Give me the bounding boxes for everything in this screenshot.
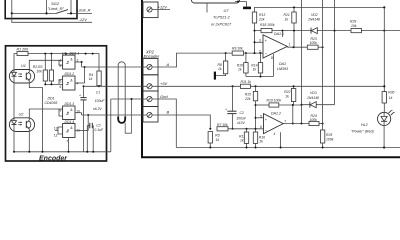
node junction [65, 53, 67, 55]
pin +12V [147, 4, 170, 12]
node junction [293, 30, 295, 32]
wire Gnd cable [111, 98, 147, 100]
svg-text:10k: 10k [36, 70, 42, 74]
wire U2 emitter [28, 129, 30, 152]
node junction [383, 85, 385, 87]
resistor R9 [232, 46, 244, 55]
node junction [225, 52, 227, 54]
svg-text:R9 10k: R9 10k [232, 46, 243, 50]
svg-text:5: 5 [260, 114, 262, 118]
wire +5V cable [84, 85, 148, 87]
wire U2 collector to DD1.3 [29, 109, 62, 120]
node junction [255, 85, 257, 87]
svg-text:DA1: DA1 [279, 62, 286, 66]
svg-text:10k: 10k [351, 24, 357, 28]
svg-text:x6.3V: x6.3V [92, 107, 102, 111]
resistor R13 [252, 12, 265, 23]
resistor R21 [284, 7, 297, 47]
node junction [87, 114, 89, 116]
svg-text:100uF: 100uF [236, 116, 247, 120]
resistor R10 [237, 53, 248, 76]
node junction [254, 41, 256, 43]
svg-text:R30: R30 [388, 91, 394, 95]
svg-text:U1: U1 [21, 64, 26, 68]
svg-text:100uF: 100uF [95, 99, 106, 103]
node junction [255, 147, 257, 149]
wire B cable [82, 114, 147, 116]
resistor R3 [49, 54, 53, 85]
connector cell +12V [143, 2, 158, 18]
svg-text:R19 100k: R19 100k [267, 99, 282, 103]
node junction [383, 6, 385, 8]
wire U7 pin4 [235, 2, 247, 7]
switch SG2 [48, 1, 69, 13]
main sheet border [142, 0, 400, 157]
node junction [92, 53, 94, 55]
pin B [147, 110, 170, 118]
svg-text:R18 100k: R18 100k [260, 23, 275, 27]
LED HL2 [351, 110, 395, 134]
capacitor C2 encoder [87, 123, 104, 152]
node -12V [79, 17, 88, 22]
svg-text:1N4148: 1N4148 [308, 18, 320, 22]
pin Gnd [147, 94, 168, 102]
wire stub x282 [282, 31, 284, 37]
svg-text:9: 9 [60, 109, 62, 113]
limit box border [5, 0, 77, 19]
svg-text:C1: C1 [96, 90, 100, 94]
node junction [50, 83, 52, 85]
node junction [383, 30, 385, 32]
svg-text:TLP521-2: TLP521-2 [213, 16, 231, 20]
node junction [260, 52, 262, 54]
svg-text:2: 2 [259, 50, 261, 54]
wire DD1.2 input [45, 80, 62, 85]
resistor R1 [17, 48, 29, 56]
wire vertical x334 [334, 0, 336, 105]
wire LED to rail [383, 126, 385, 148]
resistor R29 [350, 20, 362, 33]
svg-text:22k: 22k [258, 18, 265, 22]
connector cell +5V [143, 75, 158, 91]
svg-text:8: 8 [271, 56, 273, 60]
svg-text:1k: 1k [389, 96, 393, 100]
wire top rail [255, 7, 385, 12]
resistor R24 [309, 114, 323, 126]
node junction [246, 147, 248, 149]
svg-text:Limit_R: Limit_R [77, 8, 91, 13]
node junction [260, 76, 262, 78]
node junction [45, 12, 47, 14]
wire mid rail [255, 30, 400, 32]
svg-text:6: 6 [60, 85, 62, 89]
node junction [254, 30, 256, 32]
svg-text:Encoder: Encoder [39, 155, 68, 162]
svg-text:7: 7 [284, 119, 286, 123]
node junction [92, 151, 94, 153]
svg-text:VD2: VD2 [311, 13, 318, 17]
svg-text:R29: R29 [350, 20, 356, 24]
svg-text:3: 3 [259, 39, 261, 43]
diode VD2 [308, 13, 320, 34]
wire feedback x292.8 [292, 105, 294, 124]
node junction [44, 53, 46, 55]
node junction [322, 123, 324, 125]
wire encoder ground rail [15, 151, 111, 153]
resistor R23 [307, 37, 322, 49]
svg-text:or 2xPC817: or 2xPC817 [211, 23, 232, 27]
node junction [232, 85, 234, 87]
node junction [255, 117, 257, 119]
resistor R30 [382, 91, 394, 113]
wire +5V internal rail [14, 54, 99, 71]
svg-text:+: + [79, 93, 81, 97]
node Limit_R [77, 8, 91, 13]
node junction [293, 6, 295, 8]
svg-text:1k: 1k [216, 138, 220, 142]
node junction [246, 128, 248, 130]
svg-text:+12V: +12V [158, 4, 168, 9]
svg-text:C2: C2 [240, 111, 244, 115]
connector cell A [143, 59, 158, 75]
wire [12, 13, 92, 22]
node junction [255, 104, 257, 106]
resistor R12 [239, 129, 249, 148]
node junction [85, 53, 87, 55]
resistor R15 [244, 86, 258, 132]
svg-text:1k: 1k [259, 140, 263, 144]
node junction [237, 1, 239, 3]
wire U1 collector to DD1.1 [29, 60, 62, 72]
wire R10 R14 tie [246, 76, 274, 78]
node junction [301, 123, 303, 125]
node junction [44, 83, 46, 85]
svg-text:Gnd: Gnd [160, 94, 168, 99]
wire B step [152, 115, 210, 129]
wire DD pin7 ground [66, 138, 68, 152]
resistor R7 [217, 123, 264, 131]
pin +5V [147, 81, 168, 89]
svg-text:R2,R3: R2,R3 [33, 65, 43, 69]
node junction [383, 146, 385, 148]
optocoupler U2 [9, 83, 34, 152]
svg-text:"Limit_R": "Limit_R" [48, 6, 65, 11]
wire DA1.1 pin8 [271, 54, 273, 77]
optocoupler U1 [9, 64, 34, 83]
node junction [13, 151, 15, 153]
svg-text:4: 4 [77, 82, 79, 86]
node junction [84, 66, 86, 68]
node junction [293, 85, 295, 87]
ground bar R8 [214, 72, 216, 80]
node junction [131, 98, 133, 100]
node junction [322, 147, 324, 149]
svg-text:DA1.2: DA1.2 [271, 111, 281, 115]
node junction [209, 147, 211, 149]
node junction [292, 123, 294, 125]
op-amp DA1.1 [255, 32, 291, 71]
resistor R8 [216, 53, 228, 76]
svg-text:13: 13 [54, 126, 58, 130]
wire vertical x322 [322, 0, 324, 130]
svg-text:0.1uF: 0.1uF [94, 128, 104, 132]
node junction [255, 128, 257, 130]
svg-text:B: B [167, 110, 170, 115]
node junction [11, 12, 13, 14]
wire U1 emitter [29, 80, 42, 151]
encoder box border [6, 46, 107, 163]
pin A [147, 62, 170, 70]
svg-text:+5V: +5V [160, 81, 168, 86]
node junction [70, 12, 72, 14]
svg-text:1k: 1k [285, 94, 289, 98]
node junction [83, 85, 85, 87]
node junction [280, 147, 282, 149]
wire vertical x383 upper [383, 7, 385, 91]
resistor R2 [33, 54, 48, 85]
svg-text:-12V: -12V [79, 17, 88, 22]
svg-text:"Power" (Red): "Power" (Red) [351, 130, 374, 134]
svg-text:1N4148: 1N4148 [307, 96, 319, 100]
resistor R18 [260, 23, 275, 33]
capacitor C1 [79, 86, 105, 152]
optocoupler U7 [192, 0, 240, 27]
wire [46, 0, 48, 13]
connector cell B [143, 107, 158, 123]
node junction [98, 85, 100, 87]
resistor R5 [208, 132, 220, 148]
node junction [292, 104, 294, 106]
wire R13 down [254, 23, 256, 53]
wire DD1.1 out riser to A [81, 62, 83, 67]
svg-text:HL2: HL2 [361, 123, 368, 127]
wire +12V rail [152, 85, 384, 87]
svg-text:1: 1 [289, 42, 291, 46]
svg-text:C2: C2 [96, 124, 100, 128]
resistor R11 [240, 80, 251, 89]
wire R9 to DA1.1 [244, 52, 263, 54]
wire ground rail [176, 147, 400, 149]
cable loop [118, 62, 125, 123]
svg-text:1k: 1k [218, 67, 222, 71]
resistor R22 [284, 86, 296, 105]
ground bar [243, 7, 251, 10]
svg-text:A: A [166, 62, 170, 67]
node junction [334, 30, 336, 32]
logic gate DD1.3 [60, 102, 82, 119]
svg-text:R1 200: R1 200 [17, 48, 29, 52]
connector XP2 [144, 50, 160, 60]
wire DA1.2 pin4 [280, 132, 282, 147]
capacitor C2 [225, 86, 247, 129]
resistor R19 [256, 99, 302, 108]
wire [70, 0, 72, 13]
wire DD1.4 out riser [87, 115, 89, 131]
svg-text:LM393: LM393 [277, 67, 288, 71]
wire DA1.1 output [287, 46, 307, 48]
node junction [209, 128, 211, 130]
logic gate DD1.1 [60, 51, 82, 69]
connector cell Gnd [143, 91, 158, 107]
svg-text:VD3: VD3 [310, 91, 317, 95]
svg-text:R11 1k: R11 1k [241, 80, 252, 84]
resistor R25 [320, 130, 333, 148]
svg-text:1k: 1k [240, 139, 244, 143]
wire DD1.1 input tie [59, 60, 63, 65]
node junction [254, 52, 256, 54]
node junction [50, 53, 52, 55]
op-amp DA1.2 [256, 111, 287, 136]
svg-text:1k: 1k [89, 77, 93, 81]
node junction [293, 46, 295, 48]
svg-text:CD4093: CD4093 [45, 101, 58, 105]
svg-text:4: 4 [274, 132, 276, 136]
node junction [28, 151, 30, 153]
svg-text:7: 7 [66, 140, 68, 144]
wire Gnd riser [110, 99, 112, 152]
logic gate DD1.4 [54, 120, 88, 138]
node junction [301, 104, 303, 106]
svg-text:5: 5 [60, 79, 62, 83]
resistor R16 [253, 132, 265, 148]
wire [67, 12, 92, 14]
svg-text:100k: 100k [326, 137, 334, 141]
wire Gnd drop [152, 99, 176, 148]
svg-text:12: 12 [54, 133, 58, 137]
node junction [68, 151, 70, 153]
svg-text:2: 2 [60, 64, 62, 68]
svg-text:R21: R21 [284, 13, 290, 17]
node junction [86, 151, 88, 153]
node junction [322, 46, 324, 48]
wire [11, 0, 13, 13]
svg-text:1k: 1k [238, 68, 242, 72]
svg-text:1k: 1k [285, 18, 289, 22]
wire [12, 12, 56, 14]
node junction [42, 151, 44, 153]
wire A step [152, 53, 232, 67]
svg-text:+: + [225, 108, 227, 112]
IC label DD1 CD4093 [45, 97, 58, 105]
logic gate DD1.2 [60, 72, 85, 90]
node junction [245, 52, 247, 54]
diode VD3 [302, 91, 335, 108]
node junction [232, 128, 234, 130]
svg-text:R13: R13 [259, 13, 265, 17]
wire DD1.3 out riser to B [81, 113, 83, 115]
wire A cable [82, 66, 147, 68]
wire DA1.2 output [283, 123, 309, 125]
svg-text:1k: 1k [253, 68, 257, 72]
node junction [81, 61, 83, 63]
svg-text:100k: 100k [310, 41, 318, 45]
svg-text:1: 1 [60, 59, 62, 63]
resistor R4 [89, 71, 101, 86]
wire DD1.2 out riser [84, 67, 86, 83]
cable screen wire [125, 99, 131, 133]
svg-text:x10V: x10V [236, 121, 245, 125]
wire vertical x301 [301, 0, 303, 124]
node junction [282, 30, 284, 32]
resistor R14 [251, 53, 262, 76]
svg-text:22k: 22k [244, 97, 251, 101]
